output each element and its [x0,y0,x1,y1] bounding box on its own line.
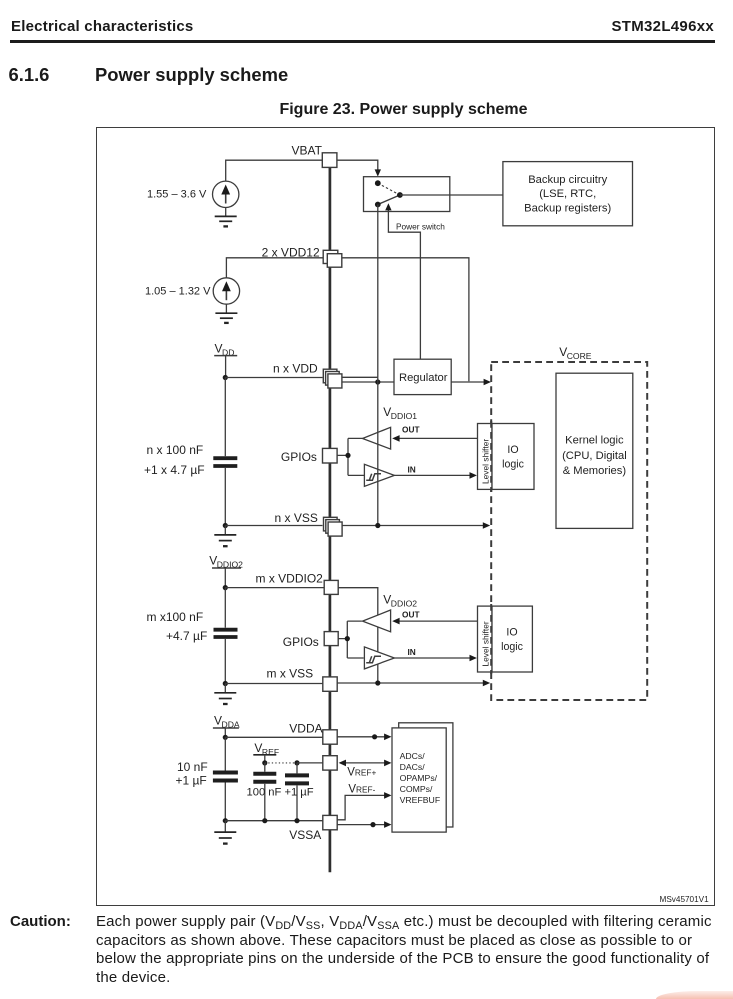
svg-text:2 x VDD12: 2 x VDD12 [262,246,320,260]
svg-text:m x100 nF: m x100 nF [147,610,204,624]
svg-text:Level shifter: Level shifter [480,621,490,666]
svg-text:IO: IO [506,627,517,639]
arrow VSSA into U7 [384,821,391,828]
page corner pink shape [656,991,733,999]
LS2 label [480,621,490,666]
OUT label 2 [402,610,420,620]
wire m VSS junction to m x VSS pin [225,683,322,685]
pin nxVSS stack [324,517,343,536]
power switch control wire [388,210,420,359]
pin nxVDD stack [323,369,342,388]
backup circuitry box U2 [503,162,633,226]
wire C5 top to VREF+ pin [297,762,323,764]
pin GPIOs1 [323,448,338,463]
svg-text:IN: IN [408,647,416,657]
dotted wire VREF to C5 top [265,762,297,764]
pin label mxVDDIO2 [256,572,324,586]
wire V1 bottom to ground [225,208,227,217]
wire VREF- from VSSA pin to U7 [337,795,384,819]
arrow VDDA into U7 [384,734,391,741]
IO logic box U5 [492,424,534,490]
wire VDDIO1 vertical [377,377,379,525]
svg-text:GPIOs: GPIOs [283,635,319,649]
net label VCORE [559,345,592,361]
header rule [10,40,715,42]
wire V2 top to VDD12 pin [226,258,323,278]
wire VSS junction to ground [224,526,226,535]
arrow VSS into VCORE domain [483,522,490,529]
arrow OUT into A1 [392,435,399,442]
wire m VSS junction to ground [224,684,226,693]
capacitor C4 100nF [253,774,276,782]
wire C5 top stub [296,763,298,774]
wire A4 IN to level shifter [394,657,469,659]
wire n x VSS to VCORE domain [342,525,483,527]
U7 text [400,751,441,805]
A4 hysteresis glyph [366,656,381,663]
pin VDDA [323,730,337,744]
arrow control into SW1 [385,203,391,210]
svg-text:VREFBUF: VREFBUF [400,795,441,805]
arrow VREF+ into pin [339,760,346,767]
figure id MSv45701V1 [660,895,710,904]
node C4 bottom dot [262,818,267,823]
voltage source V1 1.55-3.6V circle [213,181,239,207]
pin VSSA [323,815,337,829]
ground GND1 [215,216,237,226]
pin label nxVDD [273,362,318,376]
arrow OUT into A3 [392,618,399,625]
net label VDDIO1 [383,405,417,421]
wire C1 to VSS rail [224,468,226,526]
wire GPIO2 pad to buffers [338,621,364,658]
wire VSSA pin to U7 [337,824,384,826]
regulator box U3 [394,359,451,394]
schmitt input buffer A4 [364,647,394,669]
wire VDDA junction to C3 [224,737,226,770]
rail VDDA [213,714,240,738]
wire VDDA rail to VDDA pin [225,736,322,738]
pin GPIOs2 [324,632,338,646]
node VDDA wire dot [372,734,377,739]
OUT label [402,425,420,435]
U3 text [399,372,448,384]
capacitor C2 m x 100nF [214,630,238,637]
capacitor C1 n x 100nF [213,458,237,466]
MCU boundary main line [329,160,332,872]
section number 6.1.6 [9,64,50,86]
C2 value label [147,610,208,643]
header left title [11,18,194,35]
svg-text:ADCs/: ADCs/ [400,751,426,761]
pin mxVSS [323,677,337,691]
arrow into power switch top [375,169,381,176]
SW1 pole dashed [378,183,400,195]
svg-text:n x VDD: n x VDD [273,362,318,376]
wire VDD12 pin to VCORE rail [342,258,469,382]
wire level shifter to A1 OUT [400,437,478,439]
output buffer A3 [363,610,391,632]
svg-text:REF+: REF+ [355,768,377,778]
figure caption [95,101,712,119]
kernel logic box U4 [556,373,633,528]
power switch box SW1 [364,177,450,212]
svg-text:VBAT: VBAT [292,144,323,158]
wire SW1 output to backup box [400,194,503,196]
node VDD/regulator dot [375,379,380,384]
SW1 contact dots [375,180,403,207]
node m VSS junction dot [223,681,228,686]
arrow mVSS into VCORE domain [483,680,490,687]
wire regulator to VCORE [451,381,484,383]
wire VDDIO2 rail to m x VDDIO2 pin [225,587,324,589]
figure frame [96,127,715,906]
node VSS junction dot [223,523,228,528]
IN label [408,465,416,475]
C3 value label [176,760,208,788]
node VSSA junction dot [223,818,228,823]
power switch label [396,222,445,232]
svg-text:10 nF: 10 nF [177,760,208,774]
node GPIO1 dot [345,453,350,458]
wire level shifter to A3 OUT [400,620,478,622]
svg-text:100 nF +1 µF: 100 nF +1 µF [247,787,314,799]
svg-text:IO: IO [507,444,518,456]
svg-text:logic: logic [501,641,523,653]
arrow IN into level shifter 2 [470,655,477,662]
value label 1.55-3.6V [147,189,207,201]
wire m x VDDIO2 pin to VDDIO2 vertical [338,588,378,683]
A2 hysteresis glyph [366,474,381,481]
header right part number [611,18,714,35]
output buffer A1 [363,427,391,449]
wire VBAT pin to power switch [337,160,378,169]
ground GND5 [214,832,236,844]
svg-text:OUT: OUT [402,425,420,435]
svg-text:Backup circuitry: Backup circuitry [528,174,607,186]
svg-text:DDIO2: DDIO2 [391,599,417,609]
U6 text [501,627,523,654]
svg-text:(LSE, RTC,: (LSE, RTC, [539,188,596,200]
svg-text:Level shifter: Level shifter [480,439,490,484]
wire n x VDD upper to VDDIO1 line [342,376,378,378]
wire C2 to m VSS rail [224,639,226,684]
svg-text:+4.7 µF: +4.7 µF [166,629,207,643]
node C5 bottom dot [294,818,299,823]
caution label [10,913,71,930]
C4 C5 value labels [247,787,314,799]
U5 text [502,444,524,471]
node VDD junction dot [223,375,228,380]
ground GND3 [214,535,236,546]
value label 1.05-1.32V [145,286,211,298]
svg-text:VSSA: VSSA [289,828,321,842]
wire C5 to VSSA rail [296,785,298,820]
IO logic box U6 [492,606,532,672]
level shifter box LS2 [478,606,493,672]
svg-text:VDDA: VDDA [289,722,322,736]
wire VDD junction to C1 [224,378,226,457]
svg-text:OUT: OUT [402,610,420,620]
wire GPIO1 pad to buffers [337,438,364,475]
arrow regulator into VCORE domain [484,379,491,386]
pin mxVDDIO2 [324,580,338,594]
ground GND4 [214,693,236,704]
wire A2 IN to level shifter [394,474,469,476]
wire VREF node to C4 [264,763,266,772]
svg-text:OPAMPs/: OPAMPs/ [400,773,438,783]
pin 2xVDD12 stack [323,250,342,267]
svg-text:(CPU, Digital: (CPU, Digital [562,450,627,462]
rail VDD [214,342,237,378]
level shifter box LS1 [478,424,493,490]
wire V2 bottom to ground [225,304,227,313]
svg-text:Regulator: Regulator [399,372,448,384]
pin label VBAT [292,144,323,158]
analog block U7 front [392,728,446,832]
net label VDDIO2b [383,593,417,609]
svg-text:m x VDDIO2: m x VDDIO2 [256,572,324,586]
IN label 2 [408,647,416,657]
svg-text:COMPs/: COMPs/ [400,784,433,794]
node mVSS/VDDIO2 dot [375,680,380,685]
svg-text:Kernel logic: Kernel logic [565,435,624,447]
node VREF junction dot [262,760,267,765]
wire VDDA pin to U7 [337,736,384,738]
svg-text:1.55 – 3.6 V: 1.55 – 3.6 V [147,189,207,201]
pin label GPIOs2 [283,635,319,649]
wire VDD rail to n x VDD pin [225,377,322,379]
U4 text [562,435,627,478]
node C5 top dot [294,760,299,765]
voltage source V2 1.05-1.32V circle [213,278,239,304]
svg-text:+1 µF: +1 µF [176,774,207,788]
svg-text:GPIOs: GPIOs [281,450,317,464]
capacitor C3 10nF+1uF [213,773,238,781]
wire VREF+ pin to U7 [340,762,385,764]
svg-text:Power switch: Power switch [396,222,445,232]
wire VSSA junction to VSSA pin [225,820,322,822]
rail VREF [253,741,279,763]
node VDDA junction dot [223,735,228,740]
wire n x VDD to regulator [342,381,394,383]
rail VDDIO2 [209,554,243,588]
SW1 blade [378,195,400,205]
wire SW1 to VDD net [377,205,379,378]
wire VSS junction to n x VSS pin [225,525,322,527]
svg-text:DDIO1: DDIO1 [391,411,417,421]
pin VREF+ [323,756,337,770]
node VSSA wire dot [370,822,375,827]
C1 value label [144,443,205,477]
pin label mxVSS [267,666,314,680]
pin label VSSA [289,828,321,842]
svg-text:CORE: CORE [567,351,592,361]
arrow VREF- into U7 [384,792,391,799]
svg-text:1.05 – 1.32 V: 1.05 – 1.32 V [145,286,211,298]
capacitor C5 1uF [285,775,309,783]
svg-text:n x 100 nF: n x 100 nF [147,443,204,457]
wire C3 to VSSA rail [224,783,226,821]
pin label VDDA [289,722,322,736]
wire VDDIO2 junction to C2 [224,588,226,628]
wire C4 to VSSA rail [264,784,266,821]
wire V1 top to VBAT pin [226,160,323,181]
caution paragraph [96,913,733,987]
LS1 label [480,439,490,484]
svg-text:MSv45701V1: MSv45701V1 [660,895,710,904]
svg-text:n x VSS: n x VSS [275,511,318,525]
svg-text:IN: IN [408,465,416,475]
node VSS/VDDIO1 dot [375,523,380,528]
net label VREF- [348,784,375,796]
svg-text:+1 x 4.7 µF: +1 x 4.7 µF [144,463,205,477]
pin label 2xVDD12 [262,246,320,260]
schmitt input buffer A2 [364,464,394,486]
pin VBAT [322,153,337,168]
ground GND2 [215,313,237,323]
analog block U7 back sheet [399,723,453,827]
wire VSSA junction to ground [224,821,226,832]
node GPIO2 dot [345,636,350,641]
section title [95,64,288,86]
net label VREF+ [347,767,376,779]
svg-text:& Memories): & Memories) [563,465,627,477]
svg-text:m x VSS: m x VSS [267,666,314,680]
pin label GPIOs1 [281,450,317,464]
svg-text:REF-: REF- [356,785,376,795]
arrow IN into level shifter [470,472,477,479]
arrow VREF+ into U7 [384,760,391,767]
U2 text [524,174,611,215]
svg-text:DACs/: DACs/ [400,762,426,772]
node VDDIO2 junction dot [223,585,228,590]
pin label nxVSS [275,511,318,525]
VCORE dashed edge over level shifters [490,421,492,674]
VCORE domain dashed box [491,362,647,700]
wire m x VSS to VCORE domain [337,682,483,684]
svg-text:Backup registers): Backup registers) [524,203,611,215]
svg-text:logic: logic [502,459,524,471]
